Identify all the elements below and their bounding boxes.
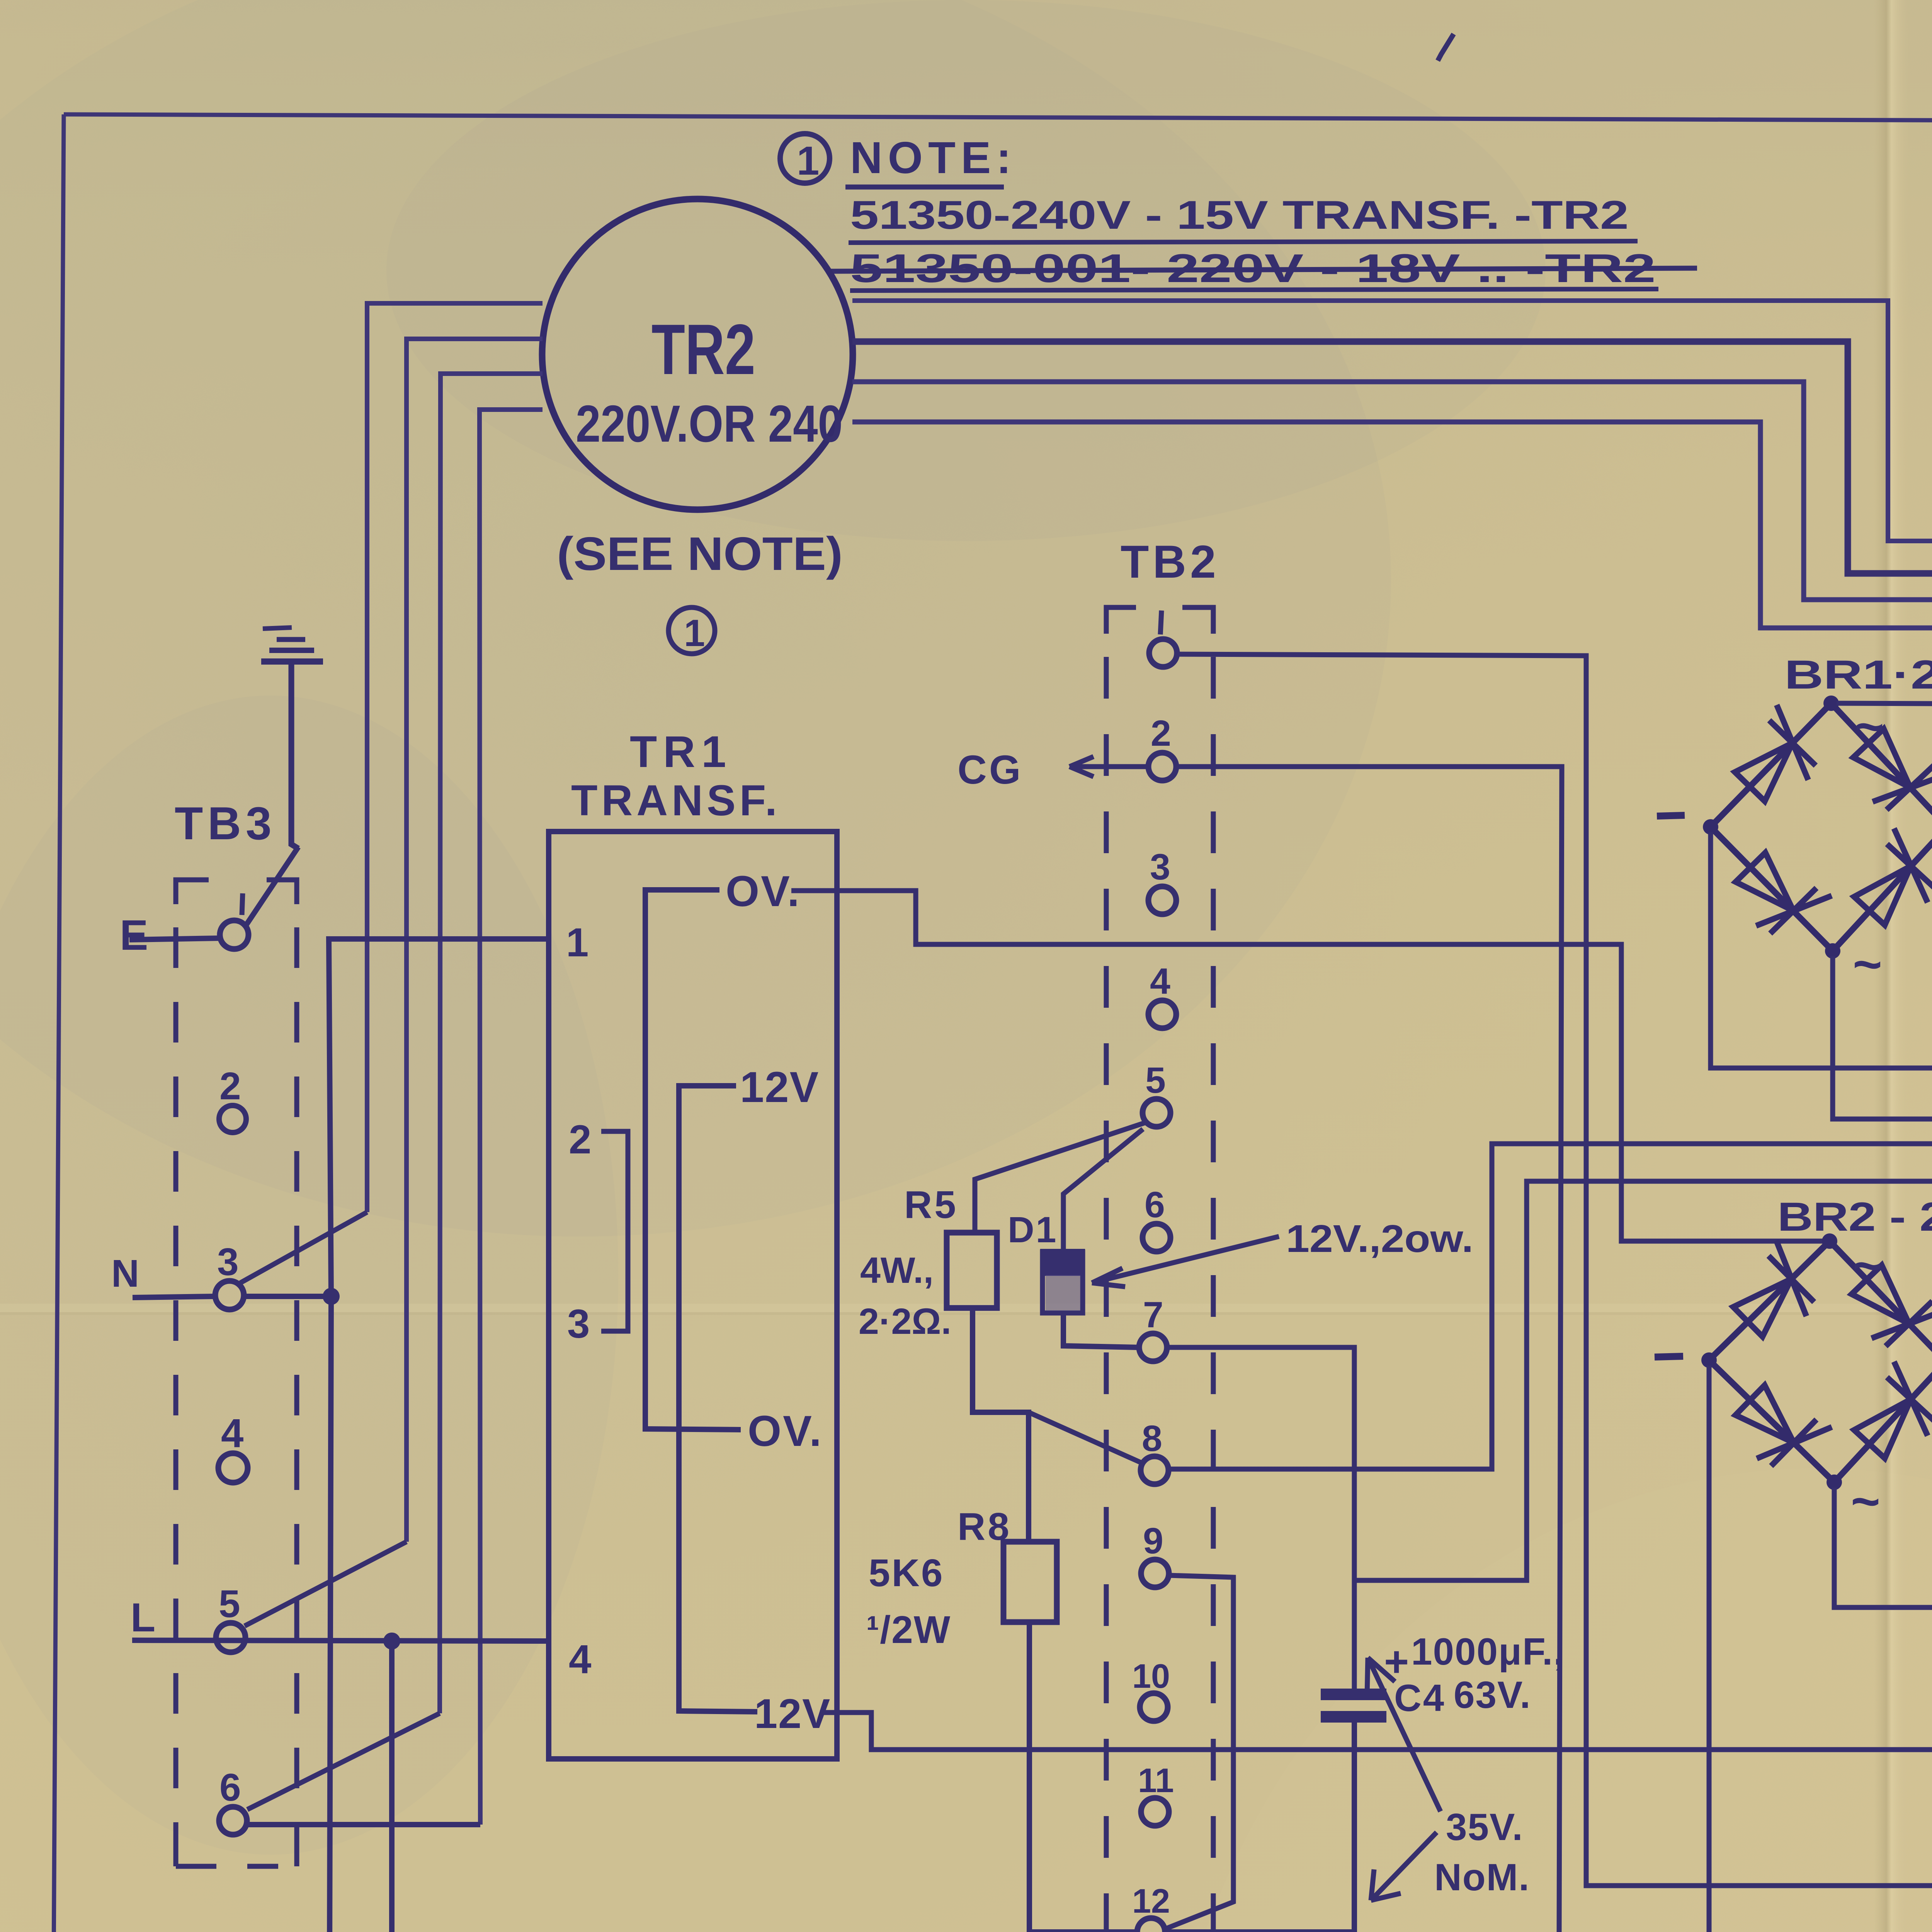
wire BR1 minus down right [1711, 832, 1932, 1068]
wire TR2 secondary 4 (right) [852, 422, 1932, 628]
wire N lead [133, 1296, 215, 1298]
svg-text:10: 10 [1132, 1657, 1170, 1695]
wire TB3-6 to TR2 primary 4 [247, 1822, 480, 1827]
diode BR2 D-d [1842, 1362, 1932, 1469]
svg-text:3: 3 [1150, 847, 1170, 888]
diode BR2 D-b [1840, 1253, 1932, 1361]
svg-text:6: 6 [219, 1766, 241, 1809]
svg-text:BR2 - 26ME: BR2 - 26ME [1777, 1194, 1932, 1240]
TR1 winding B [679, 1086, 757, 1712]
wire TB2-9 strap down to TB2-12 [1164, 1575, 1233, 1929]
svg-text:1: 1 [797, 138, 819, 184]
svg-text:TR1: TR1 [630, 727, 732, 777]
note callout circled 1 [780, 134, 830, 184]
wire TB2-7 through C4 branch [1167, 1347, 1354, 1689]
svg-text:7: 7 [1143, 1294, 1163, 1335]
diode BR1 D-b [1842, 717, 1932, 825]
node BR1 left [1703, 819, 1718, 835]
svg-text:R8: R8 [957, 1505, 1012, 1548]
diode BR2 D-a [1721, 1241, 1829, 1349]
terminal TB3-1 [220, 920, 248, 949]
node BR2 bottom [1827, 1475, 1842, 1490]
node BR1 bottom [1825, 943, 1840, 959]
wire CG arrow from TB2-2 [1070, 757, 1148, 777]
ground [261, 628, 323, 662]
svg-text:~: ~ [1853, 936, 1882, 992]
terminal TB3-6 [219, 1807, 247, 1835]
terminal TB2-1 [1149, 639, 1177, 667]
wire E lead [129, 938, 219, 940]
wire 12V output to bus [820, 1713, 1932, 1750]
wire BR1 top node right [1837, 703, 1932, 704]
terminal TB2-3 [1148, 886, 1176, 914]
svg-text:63V.: 63V. [1454, 1673, 1531, 1716]
svg-text:~: ~ [1855, 698, 1884, 755]
wire 0V output to BR2 top [791, 891, 1824, 1241]
svg-text:4W.,: 4W., [860, 1250, 934, 1291]
svg-text:6: 6 [1145, 1184, 1165, 1225]
wire TB2-8 to right riser [1168, 1144, 1932, 1469]
wire TR2 secondary 3 (right) [852, 382, 1932, 600]
wire BR1 ac bottom down right [1833, 956, 1932, 1119]
svg-text:5K6: 5K6 [869, 1551, 944, 1595]
svg-text:4: 4 [221, 1411, 243, 1456]
diode BR1 D-d [1842, 828, 1932, 936]
svg-text:NOTE:: NOTE: [850, 133, 1017, 183]
circled 1 under see note [668, 607, 715, 654]
diode BR1 D-a [1723, 705, 1830, 813]
svg-text:NoM.: NoM. [1434, 1856, 1530, 1898]
label minus BR1 [1657, 815, 1685, 816]
wire D1 to TB2-7 [1063, 1313, 1138, 1347]
wire TR2 secondary 1 (right) [852, 301, 1932, 541]
wire TR2 primary 4 (left, to TB3-6) [480, 410, 543, 1825]
svg-text:11: 11 [1138, 1761, 1174, 1799]
wire TB2-12 to C4 bottom [1165, 1721, 1354, 1932]
terminal TB2-8 [1141, 1456, 1168, 1484]
bridge rectifier BR2 [1709, 1241, 1932, 1482]
terminal block TB3 dashed outline [176, 880, 297, 1866]
svg-text:~: ~ [1851, 1473, 1880, 1529]
svg-text:OV.: OV. [748, 1407, 823, 1455]
svg-text:E: E [120, 912, 148, 959]
svg-text:4: 4 [1150, 961, 1170, 1002]
svg-text:12V.,2ow.: 12V.,2ow. [1286, 1217, 1473, 1260]
wire L lead and to TR1 pin 4 [132, 1640, 549, 1641]
wire TR2 primary 2 (left, to L switch) [406, 339, 543, 1542]
svg-text:2·2Ω.: 2·2Ω. [859, 1301, 951, 1342]
terminal TB2-11 [1141, 1798, 1169, 1826]
wire R8 bottom to TB2-12 [1029, 1622, 1137, 1932]
node BR1 top [1823, 696, 1839, 711]
wire N riser to TR1 pin 1 [329, 939, 549, 1296]
svg-text:4: 4 [569, 1637, 591, 1682]
svg-text:2: 2 [569, 1117, 591, 1162]
node BR2 left [1701, 1352, 1717, 1368]
pin label 1 [1160, 611, 1162, 634]
note line 1: 51350-240V - 15V TRANSF. -TR2 [849, 193, 1638, 243]
svg-text:R5: R5 [904, 1183, 958, 1226]
svg-text:1000μF.,: 1000μF., [1411, 1630, 1565, 1673]
wire TB2-5 to D1 [1063, 1129, 1143, 1252]
bridge rectifier BR1 [1711, 703, 1932, 951]
svg-text:2: 2 [219, 1065, 241, 1108]
svg-text:TB3: TB3 [175, 798, 276, 849]
wire TB2-1 to right bus [1177, 654, 1932, 1886]
terminal TB2-5 [1143, 1099, 1170, 1127]
node L junction [383, 1633, 400, 1650]
diode BR2 D-c [1724, 1373, 1832, 1481]
svg-text:3: 3 [567, 1301, 590, 1347]
svg-text:TR2: TR2 [651, 310, 755, 389]
svg-text:BR1·26MB: BR1·26MB [1784, 652, 1932, 697]
terminal TB2-6 [1143, 1224, 1170, 1252]
svg-text:5: 5 [1145, 1060, 1166, 1101]
svg-text:OV.: OV. [726, 867, 801, 915]
svg-text:35V.: 35V. [1446, 1806, 1524, 1848]
wire switch arm L to TR2 primary 2 [245, 1542, 406, 1626]
wire switch arm N to TR2 primary 1 [240, 1212, 367, 1283]
label minus BR2 [1655, 1356, 1683, 1357]
wire TB2-2 to CG bus right [1176, 767, 1932, 1932]
svg-text:8: 8 [1142, 1418, 1162, 1459]
svg-text:5: 5 [219, 1582, 240, 1626]
svg-text:220V.OR 240: 220V.OR 240 [576, 395, 843, 453]
svg-text:1: 1 [566, 920, 588, 965]
svg-text:12: 12 [1132, 1882, 1170, 1920]
node BR2 top [1822, 1233, 1837, 1249]
lamp D1 [1040, 1249, 1085, 1313]
wire TB2-5 to R5 [975, 1123, 1145, 1233]
wire TR2 secondary 2 (right) [852, 342, 1932, 573]
resistor R8 [1003, 1542, 1057, 1622]
wire switch arm E to ground [246, 847, 298, 925]
wire L down to power supply board [392, 1641, 478, 1932]
wire BR2 ac bottom down right [1834, 1488, 1932, 1607]
terminal block TB2 dashed outline [1106, 607, 1213, 1932]
svg-text:9: 9 [1143, 1520, 1163, 1561]
terminal TB3-4 [218, 1453, 248, 1483]
wire ground stem [291, 662, 298, 849]
wire BR2 minus down [1707, 1366, 1712, 1932]
wire TR2 primary 3 (left, to TB3-6 switch) [440, 374, 543, 1713]
svg-text:3: 3 [217, 1240, 239, 1284]
svg-text:12V: 12V [740, 1063, 819, 1111]
svg-text:CG: CG [957, 747, 1023, 793]
terminal TB2-7 [1139, 1333, 1167, 1361]
wire N to junction [244, 1294, 331, 1299]
terminal TB3-2 [219, 1105, 246, 1133]
svg-text:¹/2W: ¹/2W [866, 1608, 951, 1651]
svg-text:1: 1 [684, 612, 705, 654]
wire N down to power supply board [329, 1296, 478, 1932]
note heading NOTE: [845, 133, 1017, 187]
resistor R5 [947, 1233, 997, 1308]
svg-text:(SEE NOTE): (SEE NOTE) [557, 527, 843, 580]
svg-text:N: N [111, 1252, 139, 1295]
svg-text:L: L [131, 1595, 155, 1640]
svg-text:TRANSF.: TRANSF. [571, 776, 781, 825]
pin label 1 [242, 893, 243, 915]
svg-text:~: ~ [1853, 1237, 1882, 1294]
wire R8 top to TB2-8 [1029, 1412, 1143, 1463]
svg-text:TB2: TB2 [1121, 536, 1220, 588]
wire TR2 primary 1 (left, to N switch) [367, 303, 543, 1212]
svg-text:2: 2 [1151, 713, 1171, 754]
diode BR1 D-c [1724, 841, 1832, 949]
capacitor C4 [1321, 1694, 1386, 1717]
terminal TB3-3 [215, 1281, 244, 1310]
svg-text:C4: C4 [1394, 1677, 1446, 1719]
terminal TB2-10 [1140, 1693, 1168, 1721]
TR1 winding A [645, 890, 741, 1430]
svg-text:12V: 12V [754, 1690, 831, 1737]
terminal TB2-9 [1141, 1560, 1169, 1587]
svg-text:51350-240V - 15V TRANSF. -TR2: 51350-240V - 15V TRANSF. -TR2 [850, 193, 1629, 238]
wire switch arm TB3-6 to TR2 primary 3 [247, 1713, 440, 1810]
terminal TB3-5 [216, 1623, 245, 1652]
svg-text:D1: D1 [1008, 1209, 1058, 1250]
wire R5 bottom to R8 junction [973, 1308, 1029, 1542]
terminal TB2-2 [1148, 753, 1176, 781]
terminal TB2-4 [1148, 1000, 1176, 1028]
terminal TB2-12 [1137, 1918, 1165, 1932]
node N junction [323, 1288, 340, 1305]
note line 2 (struck out): 51350-001-220V-18V .. -TR2 [831, 246, 1697, 291]
transformer TR2 [542, 199, 853, 510]
transformer TR1 box [549, 832, 837, 1759]
wire branch to riser [1354, 1181, 1932, 1580]
